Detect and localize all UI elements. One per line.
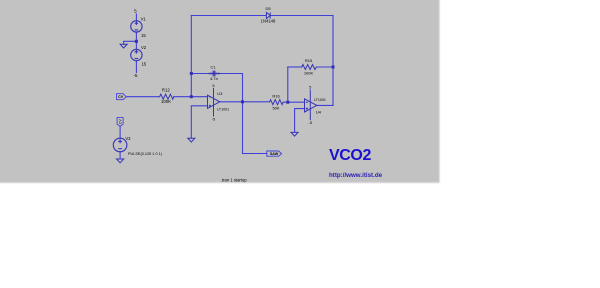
resistor R15 [302, 65, 317, 70]
wire: top feedback wire right of D5 [270, 15, 333, 17]
svg-text:VCO2: VCO2 [329, 147, 371, 164]
svg-text:CV: CV [119, 119, 123, 124]
svg-text:V2: V2 [141, 45, 147, 50]
svg-text:100K: 100K [304, 70, 314, 75]
resistor R16 [270, 100, 284, 105]
port flag CV above V3 [117, 118, 123, 127]
resistor R12 [160, 94, 174, 99]
wire: R15 left lead [288, 66, 302, 68]
junction between V1 and V2 [135, 40, 138, 43]
port flag CV (input) [117, 94, 127, 100]
junction: U4 inverting node [286, 101, 289, 104]
diode D5 [266, 12, 270, 18]
op-amp U3 [208, 88, 220, 117]
voltage source V3 [113, 138, 127, 152]
svg-text:5: 5 [134, 8, 137, 13]
svg-text:SAW: SAW [270, 152, 279, 156]
svg-text:15: 15 [142, 62, 147, 67]
svg-text:V1: V1 [141, 17, 147, 22]
svg-text:http://www.itist.de: http://www.itist.de [329, 172, 383, 179]
svg-text:CV: CV [118, 95, 124, 99]
wire: node A vertical (top wire to inverting node) [190, 16, 192, 97]
svg-text:R12: R12 [162, 88, 170, 93]
wire: CV flag to R12 [126, 96, 159, 98]
wire: V1 bottom to V2 top [135, 32, 137, 49]
svg-text:V3: V3 [125, 136, 131, 141]
wire: ground stub from V1/V2 junction [124, 41, 137, 44]
svg-text:U4: U4 [316, 109, 322, 114]
wire: V2 bottom to -5 flag [135, 61, 137, 73]
wire: V3 flag to V3 top [119, 126, 121, 138]
voltage source V1 [131, 21, 142, 32]
junction: R15 right / top wire vertical [332, 66, 335, 69]
wire: SAW row horizontal [243, 153, 267, 155]
svg-text:R16: R16 [272, 93, 280, 98]
svg-text:D5: D5 [265, 6, 271, 11]
svg-text:.tran 1 startup: .tran 1 startup [221, 177, 248, 182]
op-amp U4 [305, 90, 317, 121]
svg-text:1N4148: 1N4148 [261, 19, 276, 24]
ground below V3 [117, 159, 124, 163]
wire: C1 left lead [191, 73, 212, 75]
wire: U3 output to R16 [220, 101, 270, 103]
svg-text:LT1001: LT1001 [314, 98, 326, 102]
svg-text:-5: -5 [133, 73, 138, 78]
wire: R16 to U4 inverting input [283, 101, 304, 103]
svg-text:15: 15 [141, 33, 146, 38]
svg-text:U3: U3 [217, 91, 223, 96]
svg-text:C1: C1 [210, 65, 216, 70]
wire: U4 non-inverting input to ground [295, 109, 305, 132]
svg-text:LT1001: LT1001 [217, 107, 229, 111]
junction node A (inverting input of U3) [190, 95, 193, 98]
svg-text:100K: 100K [161, 99, 171, 104]
voltage source V2 [131, 49, 142, 60]
wire: R12 to U3 inverting input [174, 96, 208, 98]
svg-text:50K: 50K [272, 106, 279, 111]
capacitor C1 [209, 71, 220, 77]
wire: top feedback wire left of D5 [191, 15, 266, 17]
svg-text:PULSE(0.125 1 0 1): PULSE(0.125 1 0 1) [128, 152, 163, 156]
ground below U3 non-inverting input [188, 138, 195, 142]
wire: right vertical from top wire to U4 output [332, 16, 334, 106]
wire: C1 right lead to output vertical [215, 73, 242, 75]
wire: V3 bottom to ground [119, 152, 121, 159]
wire: U3 non-inverting input to ground [191, 106, 207, 138]
svg-text:4.7n: 4.7n [210, 76, 218, 81]
ground below U4 non-inverting input [291, 132, 298, 136]
junction C1 left [190, 72, 193, 75]
wire: U3 output vertical down to SAW row [242, 74, 244, 154]
junction: U3 output node [241, 100, 244, 103]
svg-text:R15: R15 [305, 58, 313, 63]
wire: V1 top flag stub [135, 14, 137, 21]
port flag SAW (output) [267, 151, 282, 156]
ground at V1/V2 junction [120, 44, 127, 48]
wire: R15 right lead [316, 66, 333, 68]
wire: U4 output to right vertical [317, 104, 333, 106]
wire: R15 left vertical to U4 input node [287, 67, 289, 102]
